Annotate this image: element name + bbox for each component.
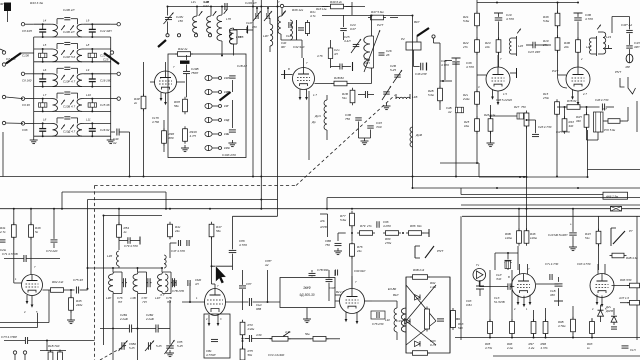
ground ЭМФ: [303, 316, 311, 323]
svg-text:С10 М0.5х30П: С10 М0.5х30П: [548, 233, 568, 237]
junction: [587, 176, 589, 178]
wire h338 c: [288, 338, 311, 340]
svg-text:R4В 4.3н: R4В 4.3н: [626, 256, 638, 260]
svg-text:27к: 27к: [462, 45, 468, 49]
label К95: [224, 146, 230, 150]
resistor R79 27к: [357, 231, 375, 236]
wire right box top y216: [462, 215, 640, 217]
svg-text:120м: 120м: [530, 236, 537, 240]
capacitor С29 pair: [365, 91, 367, 98]
label R80 270к: [384, 237, 392, 245]
label ant: [278, 0, 281, 4]
svg-text:150: 150: [252, 25, 257, 29]
wire L32 top: [396, 301, 398, 308]
wire plate h302: [226, 301, 249, 303]
label ЭМФ: [303, 286, 311, 290]
wire v586 c: [586, 127, 588, 140]
svg-text:ЭМФ: ЭМФ: [303, 286, 311, 290]
resistor R9б bottom row: [510, 319, 515, 336]
label С7ч 4.7П0: [545, 262, 559, 266]
resistor R2В bottom: [58, 350, 63, 360]
wire y266 cursor area: [212, 265, 233, 267]
label МР: [626, 65, 631, 69]
label R45 240к: [75, 299, 83, 307]
svg-text:2.2нФ: 2.2нФ: [145, 317, 155, 321]
wire row 5 bottom: [34, 135, 111, 137]
wire y258 b: [26, 258, 60, 260]
label L10: [86, 93, 91, 97]
label R75 56к: [248, 349, 254, 357]
wire v535: [535, 120, 537, 133]
pin tube Л3 b1: [491, 90, 494, 100]
junction: [519, 176, 521, 178]
wire v49: [48, 290, 50, 323]
wire v445: [444, 61, 446, 81]
resistor R9П 56к: [183, 97, 188, 115]
svg-text:R62 2ч0: R62 2ч0: [52, 280, 64, 284]
wire R9б stub: [511, 334, 513, 338]
svg-text:R27: R27: [514, 105, 520, 109]
box ЭМФ: [280, 278, 335, 308]
capacitor С26: [379, 53, 385, 55]
label Л3 pin7: [500, 57, 502, 61]
capacitor С1Р top: [225, 3, 227, 10]
svg-text:L6: L6: [43, 68, 47, 72]
wire row 3 top right: [84, 73, 111, 75]
pin tube Л9 b2: [601, 296, 604, 308]
capacitor СВ7 box: [211, 339, 218, 341]
resistor R4В 20к: [576, 37, 581, 55]
svg-text:R79: R79: [360, 224, 366, 228]
wire v498 low: [498, 52, 500, 67]
label С7В 9б0: [317, 268, 329, 272]
label R4Л 51к: [585, 232, 591, 240]
label 4.3Л: [396, 319, 402, 323]
wire v129 down: [129, 132, 131, 177]
svg-text:R3б 12к: R3б 12к: [292, 8, 304, 12]
wire v352 c: [351, 256, 353, 288]
svg-text:5.6м: 5.6м: [428, 93, 434, 97]
resistor R97 bottom row: [531, 319, 536, 336]
resistor R4б 120м: [524, 228, 529, 246]
terminal right D: [110, 51, 113, 54]
wire Л7 grid: [335, 300, 340, 302]
wire c2л right: [535, 44, 551, 46]
resistor R8б 82к: [406, 231, 424, 236]
wire Л8 top b: [527, 264, 529, 275]
label L3Р: [106, 296, 111, 300]
label R15 270к: [542, 92, 550, 100]
label L7В: [238, 35, 243, 39]
label Л3 num: [478, 85, 480, 89]
junction v557 bus: [556, 176, 558, 178]
svg-text:5-25: 5-25: [156, 344, 162, 348]
resistor R1В 51к: [350, 88, 355, 106]
variable capacitor С85: [165, 340, 175, 354]
label Р4В 4.3н: [626, 256, 638, 260]
svg-text:С16 б2: С16 б2: [100, 128, 110, 132]
variable capacitor С10Ч: [164, 13, 174, 25]
svg-text:50в: 50в: [305, 332, 310, 336]
label С1В: [286, 34, 292, 38]
wire bottom bus right2: [493, 355, 640, 357]
label С87: [246, 282, 252, 286]
resistor 50в chain: [311, 337, 329, 342]
wire Л8 top a: [519, 264, 521, 275]
wire v232 top: [231, 80, 233, 92]
tube Л9: [590, 274, 614, 298]
label С1Л: [630, 348, 636, 352]
wire v508 dn: [507, 264, 509, 270]
capacitor T С1В low: [554, 301, 563, 306]
label 1.7: [313, 93, 317, 97]
label R2ч 2ч0м: [462, 93, 470, 101]
svg-text:R40 б.2к: R40 б.2к: [330, 0, 343, 4]
label С13б: [22, 54, 29, 58]
label L8: [43, 118, 47, 122]
resistor R4Л 51к: [596, 229, 601, 247]
label 4.б0: [256, 333, 262, 337]
potentiometer R9З 510: [451, 308, 460, 330]
label С12 43П: [100, 29, 112, 33]
terminal right row 4: [111, 97, 121, 100]
label Л5 pin7: [34, 265, 36, 269]
wire R9В stub: [545, 334, 547, 338]
wire v598 dn: [598, 244, 600, 270]
label С7Р: [142, 296, 148, 304]
ground wiper: [228, 140, 236, 147]
wire Гз to grid a: [479, 286, 508, 288]
svg-text:А2: А2: [447, 110, 452, 114]
tube Л4: [566, 67, 590, 91]
resistor R9З bottom row: [590, 319, 595, 336]
pin tube Л1 bottom 2: [164, 93, 167, 105]
svg-text:4.7Л0: 4.7Л0: [466, 65, 474, 69]
svg-text:0.07: 0.07: [350, 27, 356, 31]
wire v302 seg: [301, 40, 303, 58]
capacitor С4Т: [178, 240, 189, 246]
wire box v186 c: [186, 74, 188, 97]
inductor L6: [51, 74, 58, 87]
wire v167 b: [167, 22, 169, 34]
switch contact 1: [205, 75, 218, 80]
svg-text:С4Т 4.7Л0: С4Т 4.7Л0: [171, 249, 185, 253]
pin tube Л6 b2: [217, 315, 220, 326]
svg-text:L10: L10: [86, 93, 91, 97]
wire v261: [260, 0, 262, 209]
junction row 4 d: [91, 110, 93, 112]
label R40 8.2к: [330, 0, 343, 4]
capacitor С12 43П right: [89, 24, 96, 37]
transformer Т2 core: [296, 20, 298, 40]
label R9б ЛЛ0: [620, 278, 632, 282]
capacitor С11б: [229, 130, 236, 132]
label С1В 3З0: [550, 289, 556, 297]
wire v312: [311, 270, 313, 272]
wire v170: [169, 300, 171, 345]
svg-text:С15 3б: С15 3б: [100, 103, 110, 107]
junction bottom bus: [533, 337, 535, 339]
diode Д3: [415, 341, 421, 347]
svg-text:С9б: С9б: [22, 128, 28, 132]
label С10Л 5.б: [63, 55, 75, 59]
junction: [252, 176, 254, 178]
label R9В 4.70м: [558, 320, 565, 328]
pin tube Л8 b1: [517, 295, 520, 306]
label С7В ЛЛ0: [172, 289, 184, 293]
label Л7В top: [0, 0, 1, 1]
junction v564: [564, 106, 566, 108]
svg-text:5-25: 5-25: [177, 344, 183, 348]
capacitor С7б 220 boxed: [371, 311, 385, 319]
capacitor С10Р 4.7 coupling: [57, 67, 78, 74]
label С90* В2: [329, 286, 340, 294]
resistor R4х 24к: [168, 222, 173, 240]
label С15 3б: [100, 103, 110, 107]
wire row 5 top right: [84, 122, 111, 124]
wire v62: [61, 192, 63, 209]
resistor R22 27к: [475, 37, 480, 55]
capacitor С3Р: [626, 30, 633, 32]
capacitor СV1 9бВ: [249, 298, 251, 306]
label С4Л 330: [634, 41, 640, 49]
wire h284: [545, 283, 559, 285]
capacitor С24: [328, 48, 332, 59]
svg-text:240к: 240к: [75, 303, 83, 307]
svg-text:Р7: Р7: [629, 229, 633, 233]
svg-text:L11: L11: [86, 118, 91, 122]
label R9В 4.7Лк: [541, 342, 549, 350]
label С8 1б0: [22, 78, 32, 82]
diode Д small right: [611, 316, 617, 322]
wire v335 c: [334, 270, 336, 276]
wire c29 right: [368, 94, 374, 96]
svg-text:L1В: L1В: [412, 95, 417, 99]
wire stub v479: [478, 163, 480, 177]
generator Гз: [473, 269, 486, 282]
junction: [557, 2, 559, 4]
wire row5 to cap: [111, 131, 115, 133]
wire filter rail right: [110, 37, 112, 137]
switch contact 2: [205, 89, 218, 94]
trimmer arrow L23: [597, 25, 601, 30]
inductor L8 right: [77, 49, 84, 62]
label С71 4.7Л0В: [2, 252, 18, 256]
wire v592 up: [591, 318, 593, 322]
wire v508 up: [507, 253, 509, 259]
wire v190: [189, 283, 191, 302]
wire row 3 top left: [34, 73, 51, 75]
svg-text:К9Е: К9Е: [224, 132, 229, 136]
pin tube Л5 b2: [31, 295, 34, 307]
wire y340 a: [4, 340, 25, 342]
wire lever to rail: [21, 52, 34, 54]
wire v87: [87, 200, 89, 289]
label Гч: [476, 263, 480, 267]
wire Л2 plate: [315, 83, 333, 85]
capacitor T c79: [130, 237, 140, 245]
relay contact right: [611, 228, 616, 246]
trimmer arrow 282: [281, 12, 285, 17]
svg-text:R1б 12в: R1б 12в: [316, 7, 327, 11]
label Др: [311, 120, 316, 124]
ground filter left: [30, 137, 38, 144]
svg-text:0.07: 0.07: [203, 4, 209, 8]
wire row 4 bottom: [34, 110, 111, 112]
label С2Л 33П: [528, 50, 541, 54]
inductor Л7 small: [165, 274, 168, 292]
label R4б 5к: [35, 226, 41, 234]
label L1В: [412, 95, 417, 99]
svg-text:АЧТ 1.б: АЧТ 1.б: [618, 296, 629, 300]
wire v495: [494, 253, 496, 270]
capacitor С4б 2Л: [421, 63, 423, 71]
wire v54: [53, 209, 55, 239]
wire plate Л5: [43, 289, 49, 291]
junction: [455, 176, 457, 178]
svg-text:4.7Л0: 4.7Л0: [441, 63, 449, 67]
svg-text:24к: 24к: [356, 249, 362, 253]
label С1Р 0.07: [203, 0, 209, 8]
pin tube Л3 b2: [497, 91, 500, 105]
svg-text:С87: С87: [246, 282, 252, 286]
ground С2Р: [383, 103, 391, 110]
resistor R4Р: [141, 94, 146, 112]
wire Гз to grid b: [510, 286, 514, 288]
trimmer arrow L9: [70, 25, 74, 30]
wire seg y216 mid: [233, 215, 278, 217]
label pin 7: [173, 65, 175, 69]
svg-text:С1В А2: С1В А2: [237, 64, 247, 68]
pin tube Л5 b1: [26, 295, 29, 304]
wire bus y194 right: [461, 194, 603, 196]
junction: [13, 208, 15, 210]
microphone МР: [626, 54, 633, 63]
junction y215 v103: [103, 215, 105, 217]
label С10Г 150: [246, 21, 257, 29]
svg-text:С90 91Р: С90 91Р: [354, 269, 365, 273]
svg-text:С32 910: С32 910: [293, 45, 305, 49]
label С2Н 7П0: [0, 248, 7, 252]
wire v232 a: [232, 216, 234, 249]
wire agc bus y176: [0, 176, 526, 178]
svg-text:4.3н: 4.3н: [285, 330, 291, 334]
wire ring right v: [449, 277, 451, 353]
wire y340 c: [47, 340, 95, 342]
capacitor T bar L7В: [247, 26, 249, 34]
wire v232 b: [232, 254, 234, 270]
resistor R7б 24к: [350, 241, 355, 259]
label R43 3.3м: [30, 1, 44, 5]
svg-text:Р2: Р2: [401, 37, 405, 41]
label 2.7 tube4: [582, 92, 587, 96]
label С16 1б0: [100, 78, 111, 82]
label С8 43П: [22, 29, 33, 33]
wire l3b join: [118, 266, 120, 268]
terminal contact 6: [219, 147, 222, 150]
label R77 5.6м: [340, 214, 346, 222]
label С25 3-4Л: [344, 35, 351, 43]
wire h302 to box: [253, 301, 280, 303]
label R9В 2ч3: [413, 268, 425, 272]
svg-text:4.7Л0: 4.7Л0: [585, 17, 593, 21]
label СV3 1.0х300: [268, 353, 285, 357]
resistor R9В bottom row: [543, 319, 548, 336]
diode Д2ч: [598, 310, 604, 316]
label R8б 82к: [410, 224, 422, 228]
switch contact 4: [205, 117, 218, 122]
wire dashed vertical divider: [94, 186, 96, 360]
capacitor С40 А2: [117, 129, 130, 136]
ground R2б: [487, 140, 495, 147]
junction top1: [256, 7, 258, 9]
svg-text:L4: L4: [43, 18, 47, 22]
wire h338 d: [326, 338, 340, 340]
wire box v186 b: [186, 65, 188, 72]
wire эмф gnd v: [306, 308, 308, 317]
pin tube Л8 b2: [523, 296, 526, 307]
trimmer arrow L10: [70, 100, 74, 105]
label R2б 4.3к: [484, 113, 496, 117]
trimmer arrow L8: [61, 125, 65, 130]
resistor R45 240к: [69, 295, 74, 313]
label R97 2.2м: [528, 342, 535, 350]
capacitor С10Л 5.б coupling: [57, 42, 78, 49]
dashed diagonal bottom left: [100, 344, 128, 360]
wire Л7 plate: [365, 300, 373, 302]
junction h302b: [267, 301, 269, 303]
label С7В: [166, 296, 172, 304]
label С73 220: [46, 249, 58, 253]
label 4НЧ 2.5м: [0, 0, 1, 1]
junction П2Т: [371, 15, 373, 17]
junction y188 v412: [412, 187, 414, 189]
wire row 1 bottom: [34, 36, 111, 38]
capacitor С75 4Л: [76, 287, 78, 294]
label R47 5.6м: [371, 10, 384, 14]
junction: [412, 176, 414, 178]
svg-text:С1Л: С1Л: [630, 348, 636, 352]
svg-text:L3Р: L3Р: [106, 296, 111, 300]
svg-text:ПЛ: ПЛ: [118, 300, 122, 304]
wire v573 up: [572, 209, 574, 226]
svg-text:4ЛЛ0: 4ЛЛ0: [320, 225, 327, 229]
resistor R75 56к: [240, 347, 245, 360]
svg-text:Д9Лб: Д9Лб: [605, 309, 613, 313]
wire main bus y208: [0, 208, 640, 210]
capacitor C1П top left black: [4, 3, 11, 12]
resistor R7В horizontal: [565, 105, 583, 110]
wire caps join: [359, 137, 371, 139]
resistor R72 5.6к: [606, 119, 623, 124]
junction: [260, 6, 262, 8]
wire h338 b: [252, 338, 272, 340]
label СВ1 4.7Л0Р: [206, 349, 216, 357]
wire coil270 bot: [269, 46, 271, 52]
trimmer arrow L2б: [517, 29, 521, 34]
wire r47 join: [390, 17, 398, 19]
svg-text:2к: 2к: [133, 101, 138, 105]
wire r40 right: [346, 6, 352, 8]
resistor R47 5.6м: [368, 15, 386, 20]
wire top drop1: [256, 8, 258, 13]
capacitor С9 3б: [39, 99, 47, 112]
pin tube Л8 b3: [529, 295, 532, 306]
label ВК7: [414, 20, 420, 24]
wire L32 bot: [396, 332, 398, 340]
inductor L8: [51, 123, 58, 136]
label СН1 9бВ: [256, 303, 262, 311]
